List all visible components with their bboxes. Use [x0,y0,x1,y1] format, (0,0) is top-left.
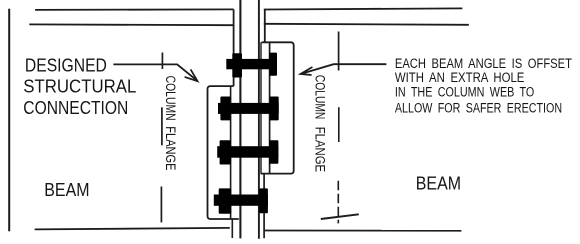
svg-text:CONNECTION: CONNECTION [23,98,128,118]
beam B2 end line [264,10,266,42]
column web right line [258,0,260,239]
svg-text:COLUMN: COLUMN [313,75,328,119]
beam B1 end line [233,9,235,86]
svg-text:COLUMN: COLUMN [163,76,178,121]
bolt 4 head right [259,188,268,213]
bolt 4 head left [219,188,232,213]
bolt 2 shaft [218,103,279,114]
beam B1 bottom flange line [35,228,230,230]
svg-text:EACH BEAM ANGLE IS OFFSET: EACH BEAM ANGLE IS OFFSET [395,56,572,71]
bolt 2 head left [220,97,230,121]
beam B3 web line left [231,219,233,238]
break mark [321,214,359,219]
column flange right centerline dash 2 [338,107,340,142]
column flange right centerline dash 3 (dashed) [337,181,339,224]
beam angle A1 leg line [230,86,232,219]
bolt 4 shaft [214,195,268,206]
bolt 3 head right [269,140,278,164]
svg-text:WITH AN EXTRA HOLE: WITH AN EXTRA HOLE [395,70,525,85]
beam angle A2 (right) outline [261,42,294,173]
border line [8,9,10,231]
bolt 3 shaft [217,146,278,158]
bolt 1 shaft [226,59,277,69]
bolt 1 head left [232,53,242,77]
svg-text:FLANGE: FLANGE [163,126,178,170]
column flange left centerline dash 3 [160,187,162,223]
bolt 1 head right [269,53,277,76]
svg-text:BEAM: BEAM [44,179,89,200]
arrowhead right [300,67,312,75]
column flange left centerline dash 1 [161,53,163,70]
svg-text:STRUCTURAL: STRUCTURAL [23,77,136,97]
svg-text:IN THE COLUMN WEB TO: IN THE COLUMN WEB TO [395,85,534,100]
beam B2 top flange line 2 [264,24,469,25]
column web left line [239,0,241,238]
column flange left centerline dash 2 [161,107,163,145]
svg-text:ALLOW FOR SAFER ERECTION: ALLOW FOR SAFER ERECTION [395,100,562,115]
svg-text:DESIGNED: DESIGNED [25,55,107,75]
beam B1 top flange line 2 [29,23,233,26]
beam B2 bottom flange line [265,230,462,232]
beam B1 top flange line 1 [35,8,234,11]
arrowhead left [185,69,198,81]
leader line from DESIGNED label [113,64,197,80]
beam B2 top flange line 1 [264,8,463,9]
beam angle A2 left edge [260,42,262,173]
beam B3 web line right [263,174,265,239]
leader line from right note [301,64,386,74]
beam angle A1 (left) outline [208,86,239,219]
bolt 2 head right [270,97,279,121]
beam angle A2 leg line [269,43,271,174]
bolt 3 head left [220,140,231,164]
svg-text:BEAM: BEAM [416,172,461,193]
column flange right centerline dash 1 [338,32,340,71]
svg-text:FLANGE: FLANGE [313,127,328,172]
